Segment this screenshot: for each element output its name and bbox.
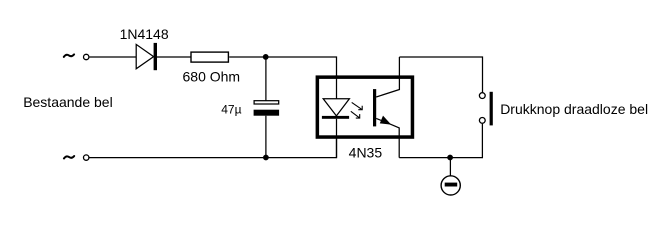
svg-text:Drukknop draadloze bel: Drukknop draadloze bel: [500, 101, 648, 117]
wire diode to resistor: [157, 56, 191, 58]
ac source symbol ~ top: [64, 54, 74, 57]
wire node C to battery symbol: [449, 158, 451, 177]
junction node A: [263, 54, 269, 60]
light arrow 2: [351, 111, 360, 118]
wire collector to push button (top right rail): [399, 57, 482, 93]
push button S1: [479, 92, 492, 126]
junction node C: [447, 155, 453, 161]
LED D2 inside U1: [322, 99, 350, 119]
wire resistor to node A: [229, 56, 266, 58]
wire node A to optocoupler anode corner: [266, 57, 337, 76]
terminal circle top-left: [84, 54, 89, 59]
wire capacitor to node B: [265, 116, 267, 158]
terminal circle bottom-left: [84, 155, 89, 160]
svg-text:4N35: 4N35: [349, 145, 383, 161]
battery negative terminal symbol: [441, 176, 460, 195]
phototransistor Q1 collector lead: [376, 57, 399, 97]
svg-text:680 Ohm: 680 Ohm: [183, 69, 241, 85]
wire bottom rail left (terminal to LED cathode corner): [90, 139, 337, 158]
svg-text:47µ: 47µ: [221, 102, 241, 116]
junction node B: [263, 155, 269, 161]
LED anode wire (into box): [336, 75, 338, 99]
diode D1 1N4148: [136, 43, 157, 70]
ac source symbol ~ bottom: [64, 156, 74, 159]
phototransistor Q1 base bar: [373, 89, 376, 126]
phototransistor Q1 emitter lead: [376, 118, 399, 157]
wire push button to bottom right rail: [399, 124, 482, 158]
wire terminal to diode: [90, 56, 137, 58]
emitter arrow head: [380, 116, 391, 125]
optocoupler U1 4N35 box: [317, 77, 412, 137]
capacitor C1 47u: [254, 101, 280, 116]
LED cathode wire (out of box): [336, 119, 338, 158]
resistor R1 680 Ohm: [191, 52, 228, 62]
svg-text:Bestaande bel: Bestaande bel: [23, 94, 113, 110]
wire node A down to capacitor: [265, 57, 267, 101]
light arrow 1: [352, 102, 363, 109]
svg-text:1N4148: 1N4148: [120, 26, 169, 42]
